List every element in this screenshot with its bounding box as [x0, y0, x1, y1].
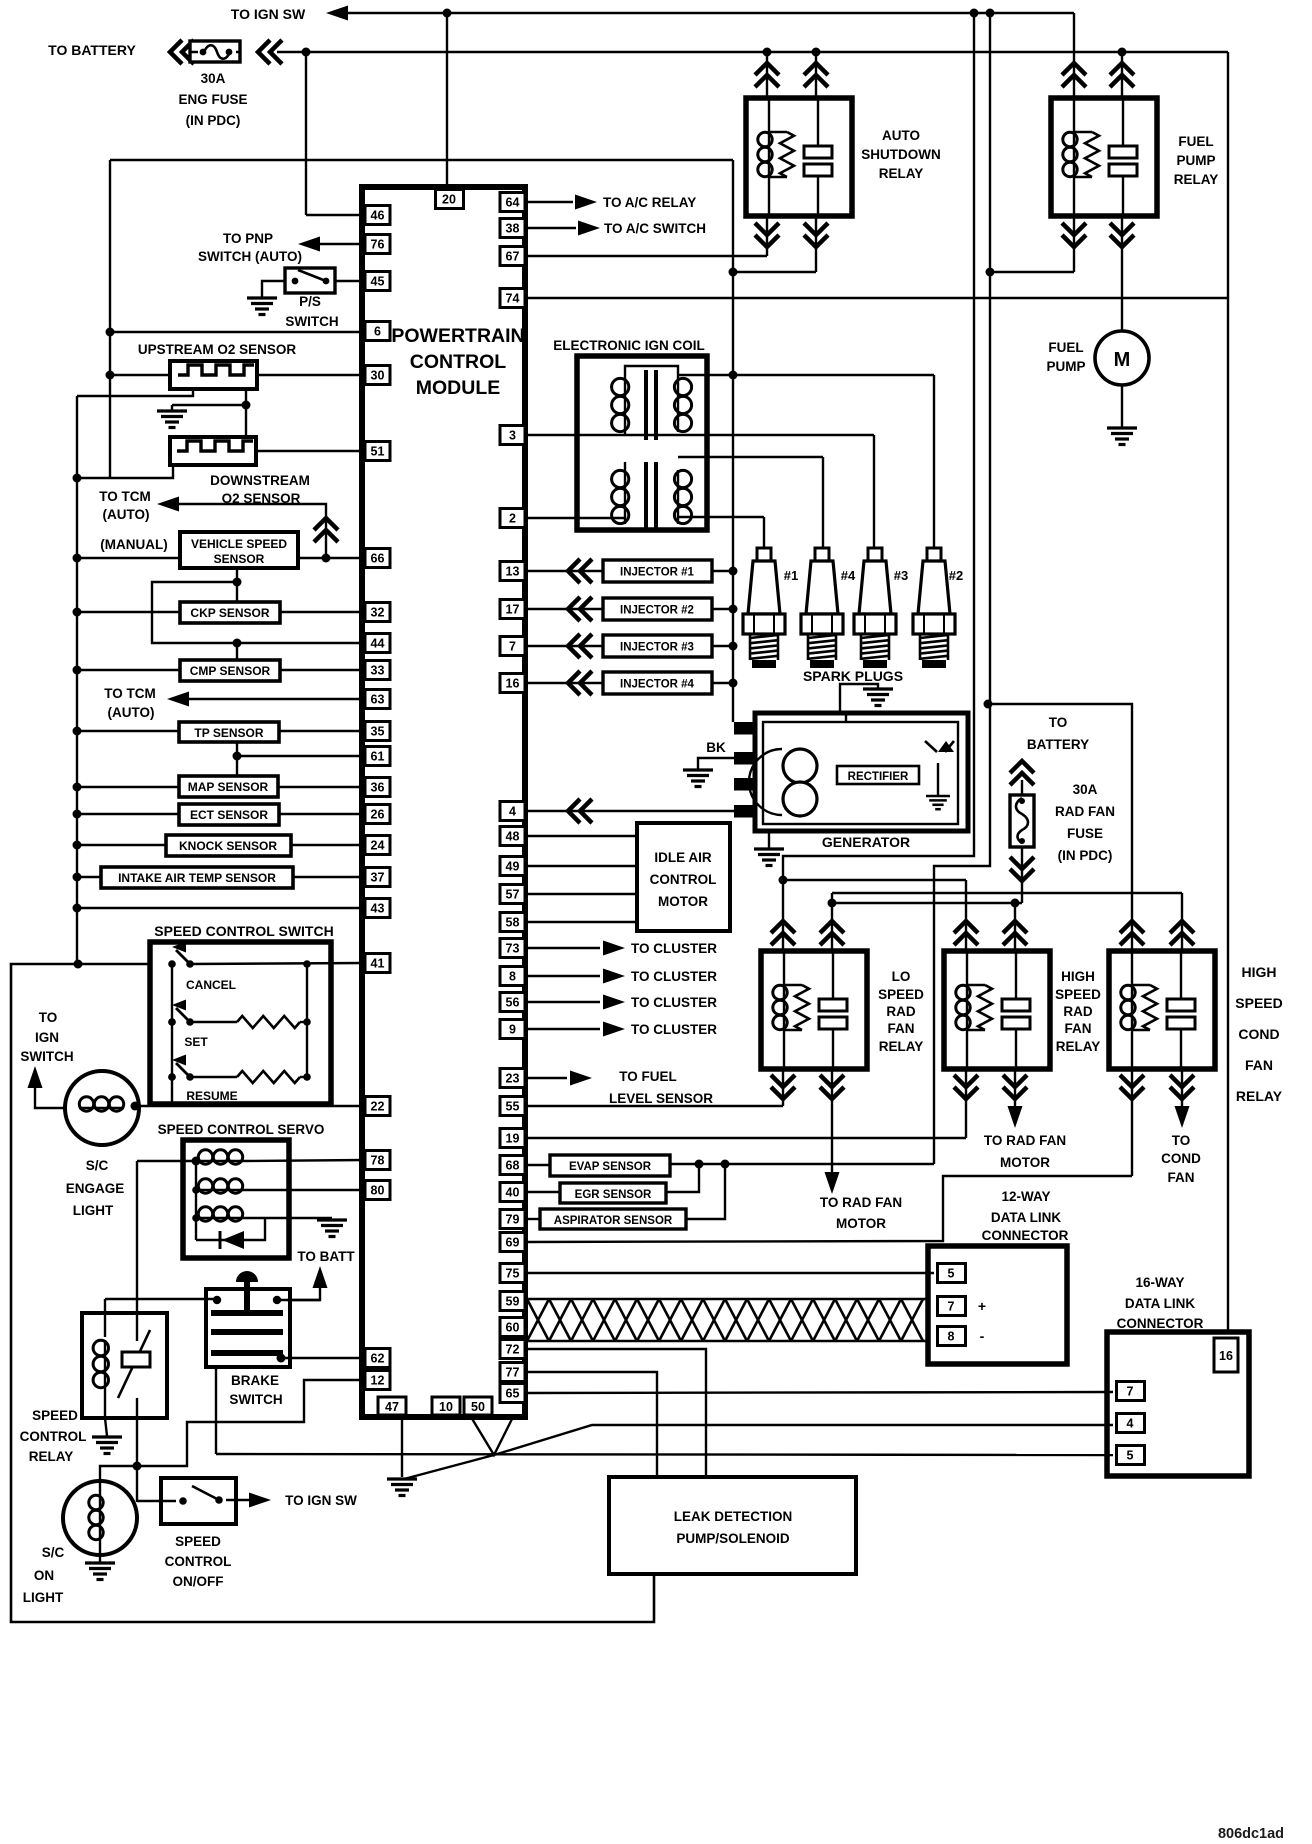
- transformer T1 ELECTRONIC IGN COIL box: [577, 356, 707, 530]
- set lever: [176, 1008, 190, 1022]
- pin 22: [365, 1097, 390, 1116]
- pin 69: [500, 1233, 525, 1252]
- wire on light to ground: [99, 1540, 101, 1562]
- generator rectifier: [837, 766, 919, 784]
- wire fuse to pin 46: [305, 52, 307, 215]
- pin 64: [500, 193, 525, 212]
- svg-text:RECTIFIER: RECTIFIER: [848, 771, 909, 783]
- svg-text:TO CLUSTER: TO CLUSTER: [631, 969, 717, 984]
- svg-text:41: 41: [371, 957, 385, 971]
- arrow to rad fan motor 2: [1008, 1106, 1023, 1128]
- ign coil core bottom: [644, 462, 648, 532]
- svg-text:TO: TO: [39, 1010, 58, 1025]
- svg-text:20: 20: [442, 193, 456, 207]
- wire coil to plug 1: [678, 516, 764, 518]
- svg-text:24: 24: [371, 839, 385, 853]
- switch S4 SPEED CONTROL ON/OFF: [161, 1478, 236, 1524]
- ground P/S switch: [247, 298, 277, 315]
- pin 4: [500, 802, 525, 821]
- pin 5 (12-way): [938, 1264, 966, 1283]
- wire MAP left to bus: [77, 786, 179, 788]
- pin 38: [500, 219, 525, 238]
- cancel lever: [176, 950, 190, 964]
- wire coil to plug 2: [678, 374, 934, 376]
- svg-text:KNOCK SENSOR: KNOCK SENSOR: [179, 839, 277, 853]
- svg-text:16: 16: [506, 677, 520, 691]
- svg-text:26: 26: [371, 808, 385, 822]
- pin 50: [464, 1397, 492, 1415]
- svg-text:12-WAY: 12-WAY: [1001, 1189, 1050, 1204]
- svg-text:SET: SET: [184, 1035, 208, 1049]
- junction sc relay output: [133, 1462, 142, 1471]
- svg-text:DATA LINK: DATA LINK: [991, 1210, 1061, 1225]
- connector J1 12-WAY DATA LINK box: [928, 1246, 1067, 1364]
- junction vertical A: [970, 9, 979, 18]
- pin 61: [365, 747, 390, 766]
- junction pin 6: [106, 328, 115, 337]
- wire pin to injector #1: [525, 570, 603, 572]
- junction coil supply: [729, 371, 738, 380]
- svg-text:SWITCH: SWITCH: [20, 1049, 73, 1064]
- lamp S/C ON LIGHT: [63, 1481, 137, 1555]
- wire pin 48 to IAC: [525, 835, 637, 837]
- wire set row: [190, 1021, 237, 1023]
- pin 4 (16-way): [1117, 1414, 1145, 1433]
- svg-text:CKP SENSOR: CKP SENSOR: [190, 606, 269, 620]
- svg-text:CMP SENSOR: CMP SENSOR: [190, 664, 271, 678]
- wire pin 38: [525, 227, 576, 229]
- junction ASD output to injector bus: [729, 268, 738, 277]
- pin 20: [436, 190, 464, 209]
- svg-text:78: 78: [371, 1154, 385, 1168]
- svg-text:35: 35: [371, 725, 385, 739]
- svg-text:77: 77: [506, 1366, 520, 1380]
- wire pin 55: [525, 1105, 783, 1107]
- pin 56: [500, 993, 525, 1012]
- svg-text:-: -: [980, 1328, 985, 1344]
- wire IAT left to bus: [77, 876, 101, 878]
- junction ASPIRATOR: [721, 1160, 730, 1169]
- svg-text:ECT SENSOR: ECT SENSOR: [190, 808, 268, 822]
- wire pin 57 to IAC: [525, 893, 637, 895]
- wire P/S switch to pin 45: [335, 280, 365, 282]
- svg-text:TO PNP: TO PNP: [223, 231, 273, 246]
- wire MAP to pin 36: [278, 786, 365, 788]
- junction upstream O2: [106, 371, 115, 380]
- sensor B2 downstream O2: [170, 437, 256, 465]
- pin 45: [365, 272, 390, 291]
- svg-text:FAN: FAN: [1168, 1170, 1195, 1185]
- wire injector #2 to supply bus: [712, 608, 733, 610]
- wire lo relay contact input: [831, 903, 833, 951]
- wire O2 ground tap: [172, 404, 246, 406]
- wire downstream O2 to bus: [77, 465, 173, 478]
- wire KNOCK left to bus: [77, 844, 166, 846]
- wire VSS left to bus: [77, 557, 180, 559]
- wire vertical net B x=990: [934, 13, 990, 1164]
- generator connector stubs: [734, 722, 755, 735]
- svg-text:RELAY: RELAY: [1236, 1088, 1283, 1104]
- svg-text:ON: ON: [34, 1568, 54, 1583]
- wire pin 43 to bus: [77, 907, 365, 909]
- wire to cluster y=1029: [525, 1028, 600, 1030]
- relay K3 SPEED CONTROL RELAY box: [82, 1313, 167, 1418]
- junction VSS to pin 66: [322, 554, 331, 563]
- svg-text:TO CLUSTER: TO CLUSTER: [631, 1022, 717, 1037]
- pin 58: [500, 913, 525, 932]
- svg-text:PUMP: PUMP: [1176, 153, 1215, 168]
- junction pin20 feed: [443, 9, 452, 18]
- pin 30: [365, 366, 390, 385]
- sensor EVAP: [525, 1164, 550, 1166]
- wire VSS to CKP: [236, 568, 238, 602]
- svg-text:CONTROL: CONTROL: [410, 351, 506, 373]
- svg-text:MODULE: MODULE: [416, 377, 501, 399]
- wire upstream O2 left: [110, 374, 170, 376]
- svg-text:FUEL: FUEL: [1178, 134, 1213, 149]
- svg-text:74: 74: [506, 292, 520, 306]
- module LEAK DETECTION PUMP/SOLENOID box: [609, 1477, 856, 1574]
- svg-text:65: 65: [506, 1387, 520, 1401]
- pin 7 (16-way): [1117, 1382, 1145, 1401]
- wire brake switch to 16-way pin 5: [216, 1454, 1113, 1455]
- svg-text:55: 55: [506, 1100, 520, 1114]
- wire sc relay switch output: [136, 1418, 138, 1502]
- wire pin 3 through coil to plug 3: [525, 434, 874, 436]
- ground sc relay: [92, 1437, 122, 1454]
- wire fuel pump to ground: [1121, 385, 1123, 427]
- svg-text:7: 7: [948, 1300, 955, 1314]
- relay K4 LO SPEED RAD FAN box: [761, 951, 867, 1069]
- svg-text:75: 75: [506, 1267, 520, 1281]
- wire downstream O2 to pin 51: [256, 450, 365, 452]
- pin 78: [365, 1151, 390, 1170]
- pin 46: [365, 206, 390, 225]
- svg-text:RELAY: RELAY: [29, 1449, 74, 1464]
- junction servo coil 1: [192, 1157, 201, 1166]
- wire servo common: [137, 1160, 196, 1162]
- pin 24: [365, 836, 390, 855]
- wire pin 65 to 16-way pin 7: [525, 1392, 1113, 1393]
- pin 75: [500, 1264, 525, 1283]
- pin 5 (16-way): [1117, 1446, 1145, 1465]
- svg-text:TO TCM: TO TCM: [99, 489, 151, 504]
- arrow to TCM lower: [167, 692, 189, 707]
- wire ASD contact output: [815, 216, 817, 272]
- relay K4 LO SPEED RAD FAN contacts: [832, 951, 834, 999]
- arrow to cond fan: [1175, 1106, 1190, 1128]
- switch SET row: [168, 1018, 176, 1026]
- pin 73: [500, 939, 525, 958]
- svg-text:CANCEL: CANCEL: [186, 978, 236, 992]
- pin 55: [500, 1097, 525, 1116]
- sensor INTAKE AIR TEMP: [101, 867, 293, 888]
- junction injector #2 tap: [729, 605, 738, 614]
- wire outer boundary bottom-left: [11, 964, 654, 1622]
- svg-text:SPEED CONTROL SERVO: SPEED CONTROL SERVO: [158, 1122, 325, 1137]
- junction bus to boundary: [74, 960, 83, 969]
- junction fuel pump relay contact feed: [1118, 48, 1127, 57]
- svg-text:FAN: FAN: [1245, 1057, 1273, 1073]
- wire sensor return bus x=110: [109, 160, 111, 478]
- pin 37: [365, 868, 390, 887]
- pin 72: [500, 1340, 525, 1359]
- connector J2 16-WAY DATA LINK box: [1107, 1332, 1249, 1476]
- wire pin 49 to IAC: [525, 865, 637, 867]
- svg-text:TO BATTERY: TO BATTERY: [48, 42, 136, 58]
- wire vertical net A x=973: [783, 13, 974, 880]
- wire brake switch to batt: [287, 1286, 320, 1300]
- svg-text:TO RAD FAN: TO RAD FAN: [984, 1133, 1066, 1148]
- wire pin 58 to IAC: [525, 921, 637, 923]
- sensor EGR: [525, 1191, 560, 1193]
- wire generator case ground: [768, 831, 770, 848]
- svg-text:62: 62: [371, 1352, 385, 1366]
- svg-text:TP SENSOR: TP SENSOR: [194, 726, 263, 740]
- pin 43: [365, 899, 390, 918]
- svg-text:LEVEL SENSOR: LEVEL SENSOR: [609, 1091, 713, 1106]
- wire pin 74 battery sense: [525, 297, 1228, 299]
- wire servo coil2 to pin 80: [243, 1189, 365, 1191]
- arrow to A/C relay: [575, 195, 597, 210]
- switch RESUME row: [168, 1073, 176, 1081]
- wire TP to pin 35: [279, 730, 365, 732]
- injector INJ3 box: [603, 635, 712, 657]
- relay K2 FUEL PUMP resistor: [1074, 131, 1092, 133]
- svg-text:32: 32: [371, 606, 385, 620]
- svg-text:#4: #4: [841, 568, 856, 583]
- wire CKP left to bus: [77, 611, 180, 613]
- sensor TP: [179, 722, 279, 742]
- svg-text:BRAKE: BRAKE: [231, 1373, 279, 1388]
- svg-text:RELAY: RELAY: [1174, 172, 1219, 187]
- wire EGR to bus: [666, 1164, 699, 1192]
- svg-text:SPEED: SPEED: [1235, 995, 1282, 1011]
- svg-text:(AUTO): (AUTO): [108, 705, 155, 720]
- relay K2 FUEL PUMP box: [1051, 98, 1157, 216]
- pin 79: [500, 1210, 525, 1229]
- svg-text:TO A/C RELAY: TO A/C RELAY: [603, 195, 696, 210]
- arrow to A/C switch: [578, 221, 600, 236]
- pin 16 (16-way): [1214, 1338, 1238, 1372]
- svg-text:CONTROL: CONTROL: [165, 1554, 232, 1569]
- svg-text:5: 5: [948, 1267, 955, 1281]
- wire brake sw output down: [215, 1367, 217, 1454]
- pin 12: [365, 1371, 390, 1390]
- junction brake sw left contact: [213, 1296, 221, 1304]
- wire pin 75 to 12-way pin 5: [525, 1272, 934, 1274]
- svg-text:67: 67: [506, 250, 520, 264]
- relay K1 AUTO SHUTDOWN resistor: [769, 131, 787, 133]
- svg-text:64: 64: [506, 196, 520, 210]
- sensor CMP: [180, 660, 280, 681]
- wire pin 62: [281, 1357, 365, 1359]
- svg-text:ENGAGE: ENGAGE: [66, 1181, 125, 1196]
- svg-text:INJECTOR #4: INJECTOR #4: [620, 679, 695, 691]
- svg-text:UPSTREAM O2 SENSOR: UPSTREAM O2 SENSOR: [138, 342, 297, 357]
- wire generator top ground: [840, 684, 878, 713]
- svg-text:INJECTOR #3: INJECTOR #3: [620, 642, 694, 654]
- svg-text:73: 73: [506, 942, 520, 956]
- arrow to PNP switch: [298, 237, 320, 252]
- junction brake sw to pin 62: [277, 1354, 286, 1363]
- ground S/C on light: [85, 1563, 115, 1580]
- svg-text:CONNECTOR: CONNECTOR: [982, 1228, 1069, 1243]
- svg-text:61: 61: [371, 750, 385, 764]
- on/off lever: [192, 1486, 219, 1500]
- svg-text:RELAY: RELAY: [879, 1039, 924, 1054]
- wire VSS to pin 66: [298, 557, 365, 559]
- svg-text:SWITCH: SWITCH: [229, 1392, 282, 1407]
- junction fuse to pin46: [302, 48, 311, 57]
- sc relay contact: [136, 1313, 138, 1341]
- twisted pair shield band pins 59/60: [527, 1299, 928, 1341]
- pin 19: [500, 1129, 525, 1148]
- ground servo: [317, 1220, 347, 1237]
- wire on/off to ign: [226, 1499, 251, 1501]
- pin 44: [365, 634, 390, 653]
- svg-text:33: 33: [371, 664, 385, 678]
- wire IAT to pin 37: [293, 876, 365, 878]
- svg-text:FAN: FAN: [888, 1021, 915, 1036]
- generator G1 box: [755, 713, 968, 831]
- svg-text:RAD: RAD: [1063, 1004, 1092, 1019]
- junction lo relay contact: [828, 899, 837, 908]
- svg-text:4: 4: [1127, 1417, 1134, 1431]
- relay K2 FUEL PUMP coil: [1073, 98, 1075, 132]
- wire pin 4 to generator field: [525, 810, 734, 812]
- relay K5 HIGH SPEED RAD FAN coil: [966, 951, 968, 985]
- svg-text:(MANUAL): (MANUAL): [100, 537, 167, 552]
- svg-text:FUSE: FUSE: [1067, 826, 1103, 841]
- svg-text:TO A/C SWITCH: TO A/C SWITCH: [604, 221, 706, 236]
- svg-text:S/C: S/C: [42, 1545, 65, 1560]
- servo coil 3: [198, 1207, 243, 1221]
- brake switch bar 3: [211, 1350, 283, 1356]
- wire sc relay to on/off switch: [137, 1500, 176, 1502]
- ign coil primary/secondary bottom: [624, 462, 626, 470]
- fuse F1 30A ENG FUSE: [190, 41, 240, 62]
- wire servo coil3 to ground: [243, 1217, 332, 1219]
- wire pin 77 to leak pump: [525, 1372, 657, 1477]
- wire right edge bus x=1228: [1227, 52, 1229, 1332]
- svg-text:80: 80: [371, 1184, 385, 1198]
- svg-text:(IN PDC): (IN PDC): [1058, 848, 1113, 863]
- wire upstream O2 shield to bus: [77, 389, 193, 396]
- svg-text:HIGH: HIGH: [1242, 964, 1277, 980]
- pin 8 (12-way): [938, 1327, 966, 1346]
- svg-text:8: 8: [509, 970, 516, 984]
- servo coil 1: [198, 1150, 243, 1164]
- wire cond relay contact output: [1181, 1069, 1183, 1106]
- wire P/S switch to ground: [262, 281, 285, 297]
- junction engage light to pin 22 wire: [131, 1102, 140, 1111]
- ign coil core top: [644, 370, 648, 440]
- svg-text:60: 60: [506, 1321, 520, 1335]
- ign coil primary/secondary top: [625, 366, 678, 378]
- wire VSS signal to TCM: [177, 504, 326, 558]
- arrow to battery: [313, 1266, 328, 1288]
- svg-text:TO CLUSTER: TO CLUSTER: [631, 941, 717, 956]
- svg-text:CONNECTOR: CONNECTOR: [1117, 1316, 1204, 1331]
- wire pin 2 to coil: [525, 517, 625, 519]
- svg-text:SPEED: SPEED: [878, 987, 924, 1002]
- wire sensor ground bus x=77: [76, 396, 78, 964]
- spark plug #1: [743, 548, 785, 668]
- svg-text:MOTOR: MOTOR: [1000, 1155, 1050, 1170]
- relay K5 HIGH SPEED RAD FAN box: [944, 951, 1050, 1069]
- junction pin 61: [233, 752, 242, 761]
- generator diodes: [938, 741, 954, 752]
- arrow to ign switch: [28, 1066, 43, 1088]
- svg-text:38: 38: [506, 222, 520, 236]
- ground fuel pump: [1107, 428, 1137, 445]
- relay K6 HIGH SPEED COND FAN resistor: [1132, 984, 1150, 986]
- svg-text:SENSOR: SENSOR: [214, 552, 265, 566]
- resume lever: [176, 1063, 190, 1077]
- wire rad fan fuse output: [1021, 847, 1023, 903]
- relay K6 HIGH SPEED COND FAN box: [1109, 951, 1215, 1069]
- junction injector #3 tap: [729, 642, 738, 651]
- svg-text:45: 45: [371, 275, 385, 289]
- wire high relay coil input: [965, 880, 967, 951]
- junction bus y=877: [73, 873, 82, 882]
- injector INJ2 box: [603, 598, 712, 620]
- svg-text:22: 22: [371, 1100, 385, 1114]
- pin 63: [365, 690, 390, 709]
- wire generator internal top: [845, 713, 847, 722]
- pin 9: [500, 1020, 525, 1039]
- wire to cluster y=1002: [525, 1001, 600, 1003]
- wire fan relay contact bus y=903: [832, 902, 1022, 904]
- svg-text:SWITCH: SWITCH: [285, 314, 338, 329]
- relay K6 HIGH SPEED COND FAN contacts: [1180, 951, 1182, 999]
- pin 74: [500, 289, 525, 308]
- svg-text:ASPIRATOR SENSOR: ASPIRATOR SENSOR: [554, 1215, 673, 1227]
- junction bus y=478: [73, 474, 82, 483]
- junction cancel right contact: [186, 960, 194, 968]
- wire pin 19: [525, 1137, 966, 1139]
- wire CKP to pin 32: [280, 611, 365, 613]
- svg-text:3: 3: [509, 429, 516, 443]
- lamp S/C ENGAGE LIGHT: [65, 1071, 139, 1145]
- wire pin 47 to ground: [401, 1417, 403, 1477]
- svg-text:16: 16: [1219, 1349, 1233, 1363]
- svg-text:MOTOR: MOTOR: [658, 894, 708, 909]
- ground pin 47: [387, 1479, 417, 1496]
- junction bus y=731: [73, 727, 82, 736]
- spark plug #3: [854, 548, 896, 668]
- wire FPR coil output: [1073, 216, 1075, 272]
- junction cond fan feed: [984, 700, 993, 709]
- pin 23: [500, 1069, 525, 1088]
- wire servo coil1 to pin 78: [243, 1160, 365, 1161]
- generator brushes: [783, 749, 817, 783]
- wire pin 61: [237, 755, 365, 757]
- junction injector #4 tap: [729, 679, 738, 688]
- svg-text:M: M: [1114, 349, 1131, 371]
- module U1 POWERTRAIN CONTROL MODULE: [362, 187, 525, 1417]
- svg-text:DATA LINK: DATA LINK: [1125, 1296, 1195, 1311]
- wire injector supply bus x=733: [732, 160, 734, 722]
- pin 66: [365, 549, 390, 568]
- wire diagonal pin 10/50 V: [471, 1417, 513, 1455]
- wire sensor bus y=1164: [670, 1163, 934, 1165]
- wire brake sw to batt arrow: [277, 1299, 320, 1301]
- svg-text:PUMP: PUMP: [1046, 359, 1085, 374]
- wire ignition feed bus y=13: [344, 12, 1074, 15]
- svg-text:SPEED CONTROL SWITCH: SPEED CONTROL SWITCH: [154, 923, 333, 939]
